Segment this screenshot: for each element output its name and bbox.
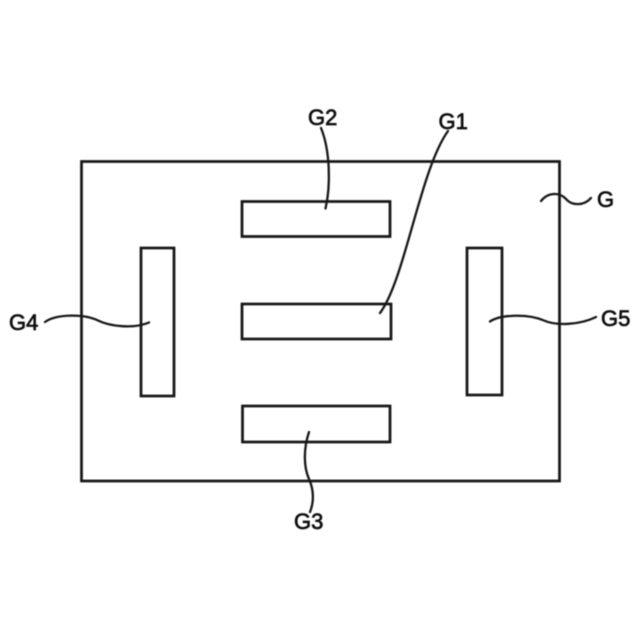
pattern G4 (left vertical bar) (141, 248, 174, 396)
pattern G5 (right vertical bar) (467, 248, 502, 395)
leader line from label G1 to middle bar (380, 131, 448, 313)
svg-text:G2: G2 (308, 105, 337, 130)
substrate outline G (82, 162, 560, 482)
leader line from label G3 to bottom bar (305, 432, 313, 512)
pattern G1 (middle horizontal bar) (242, 304, 391, 339)
leader line from label G4 to left bar (45, 316, 149, 327)
svg-text:G: G (597, 187, 614, 212)
leader line from label G to outline (541, 194, 591, 204)
leader line from label G2 to top bar (321, 128, 329, 209)
svg-text:G4: G4 (9, 310, 38, 335)
pattern G2 (top horizontal bar) (242, 202, 390, 237)
svg-text:G5: G5 (601, 306, 630, 331)
svg-text:G3: G3 (294, 509, 323, 534)
pattern G3 (bottom horizontal bar) (243, 406, 391, 442)
leader line from label G5 to right bar (490, 316, 596, 324)
svg-text:G1: G1 (439, 109, 468, 134)
